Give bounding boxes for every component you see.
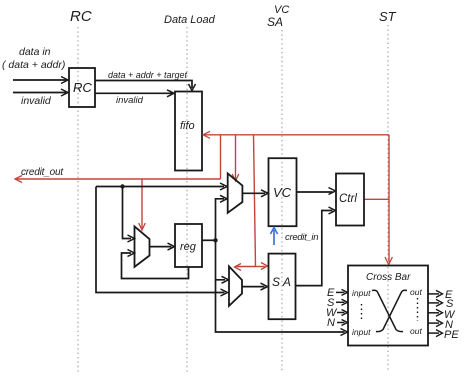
svg-text:SA: SA <box>267 15 283 29</box>
block Ctrl <box>336 174 364 226</box>
crossbar port N out <box>428 322 439 324</box>
wire loop top (to muxT input1) <box>96 186 224 188</box>
stage dashed line ST <box>387 25 389 372</box>
crossbar port W out <box>428 312 439 314</box>
block fifo <box>175 92 202 171</box>
svg-text:credit_in: credit_in <box>285 232 318 243</box>
junction dot loop/mux1 <box>120 184 124 188</box>
wire red trunk horizontal (to fifo right) <box>204 134 389 136</box>
svg-text:( data + addr): ( data + addr) <box>2 59 65 71</box>
svg-text:ST: ST <box>379 9 397 24</box>
svg-text:invalid: invalid <box>21 95 52 107</box>
svg-text:data in: data in <box>19 46 51 58</box>
crossbar X line A <box>372 290 403 331</box>
svg-text:N: N <box>327 317 335 329</box>
svg-text:data + addr + target: data + addr + target <box>108 70 188 80</box>
wire RC to fifo top (data+addr+target) <box>95 81 192 89</box>
wire bypass down to crossbar input <box>216 280 345 332</box>
wire red Ctrl to trunk <box>364 198 389 200</box>
wire red branch x254 down to SA/muxB <box>254 135 256 267</box>
stage dashed line Data Load <box>186 27 188 372</box>
wire muxT to VC <box>242 192 265 194</box>
wire junction up to muxT input2 <box>216 199 225 241</box>
block SA <box>269 254 296 320</box>
wire to mux1 input1 <box>123 187 132 239</box>
crossbar port S out <box>428 302 439 304</box>
svg-text:Ctrl: Ctrl <box>339 193 357 205</box>
wire reg feedback to mux1 input2 <box>122 253 189 279</box>
wire SA to Ctrl <box>296 211 333 286</box>
muxB <box>229 266 242 306</box>
wire loop left and bottom (to muxB input2) <box>96 187 225 293</box>
svg-text:input: input <box>352 288 371 298</box>
block VC <box>269 158 297 226</box>
svg-text:out: out <box>410 287 422 297</box>
svg-text:Cross Bar: Cross Bar <box>366 272 411 283</box>
stage dashed line RC <box>77 27 79 372</box>
crossbar X line B <box>376 290 407 331</box>
wire muxB to SA <box>242 286 265 288</box>
svg-text:PE: PE <box>444 329 459 341</box>
block Cross Bar <box>348 266 428 346</box>
wire junction down to muxB input1 <box>216 240 226 279</box>
wire reg output to junction <box>202 239 216 241</box>
block RC <box>69 68 95 107</box>
svg-text:input: input <box>352 327 371 337</box>
muxT <box>228 173 243 212</box>
svg-text:reg: reg <box>180 241 197 253</box>
svg-text:out: out <box>410 326 422 336</box>
wire red to SA left (right arrow) <box>256 266 266 268</box>
blue credit_in arrow <box>273 230 275 245</box>
block reg <box>175 224 202 267</box>
wire VC to Ctrl <box>297 191 333 193</box>
junction dot reg output <box>213 238 217 242</box>
wire mux1 to reg <box>150 246 172 248</box>
wire red to muxB top (left arrow) <box>236 266 256 268</box>
svg-text:VC: VC <box>273 185 292 200</box>
wire data in <box>13 79 66 81</box>
stage dashed line VC SA <box>281 30 283 372</box>
svg-text:invalid: invalid <box>116 95 144 106</box>
mux1 <box>135 226 150 267</box>
svg-text:RC: RC <box>70 8 92 25</box>
svg-text:Data Load: Data Load <box>164 14 216 26</box>
crossbar left dots <box>361 304 363 320</box>
svg-text:credit_out: credit_out <box>21 167 64 178</box>
wire red branch x236 down to muxT <box>235 135 237 179</box>
wire red branch x220 down to credit_out <box>220 135 222 179</box>
crossbar port E out <box>428 293 439 295</box>
wire red trunk vertical to crossbar <box>388 135 390 262</box>
crossbar port PE out <box>428 332 439 334</box>
wire red branch to mux1 top <box>141 179 143 228</box>
wire invalid in <box>13 92 66 94</box>
wire credit_out (red) <box>16 178 221 180</box>
svg-text:fifo: fifo <box>180 120 195 132</box>
svg-text:RC: RC <box>73 80 92 95</box>
svg-text:S A: S A <box>272 275 291 289</box>
wire RC to fifo left (invalid) <box>95 92 172 94</box>
crossbar right dots <box>417 298 419 321</box>
